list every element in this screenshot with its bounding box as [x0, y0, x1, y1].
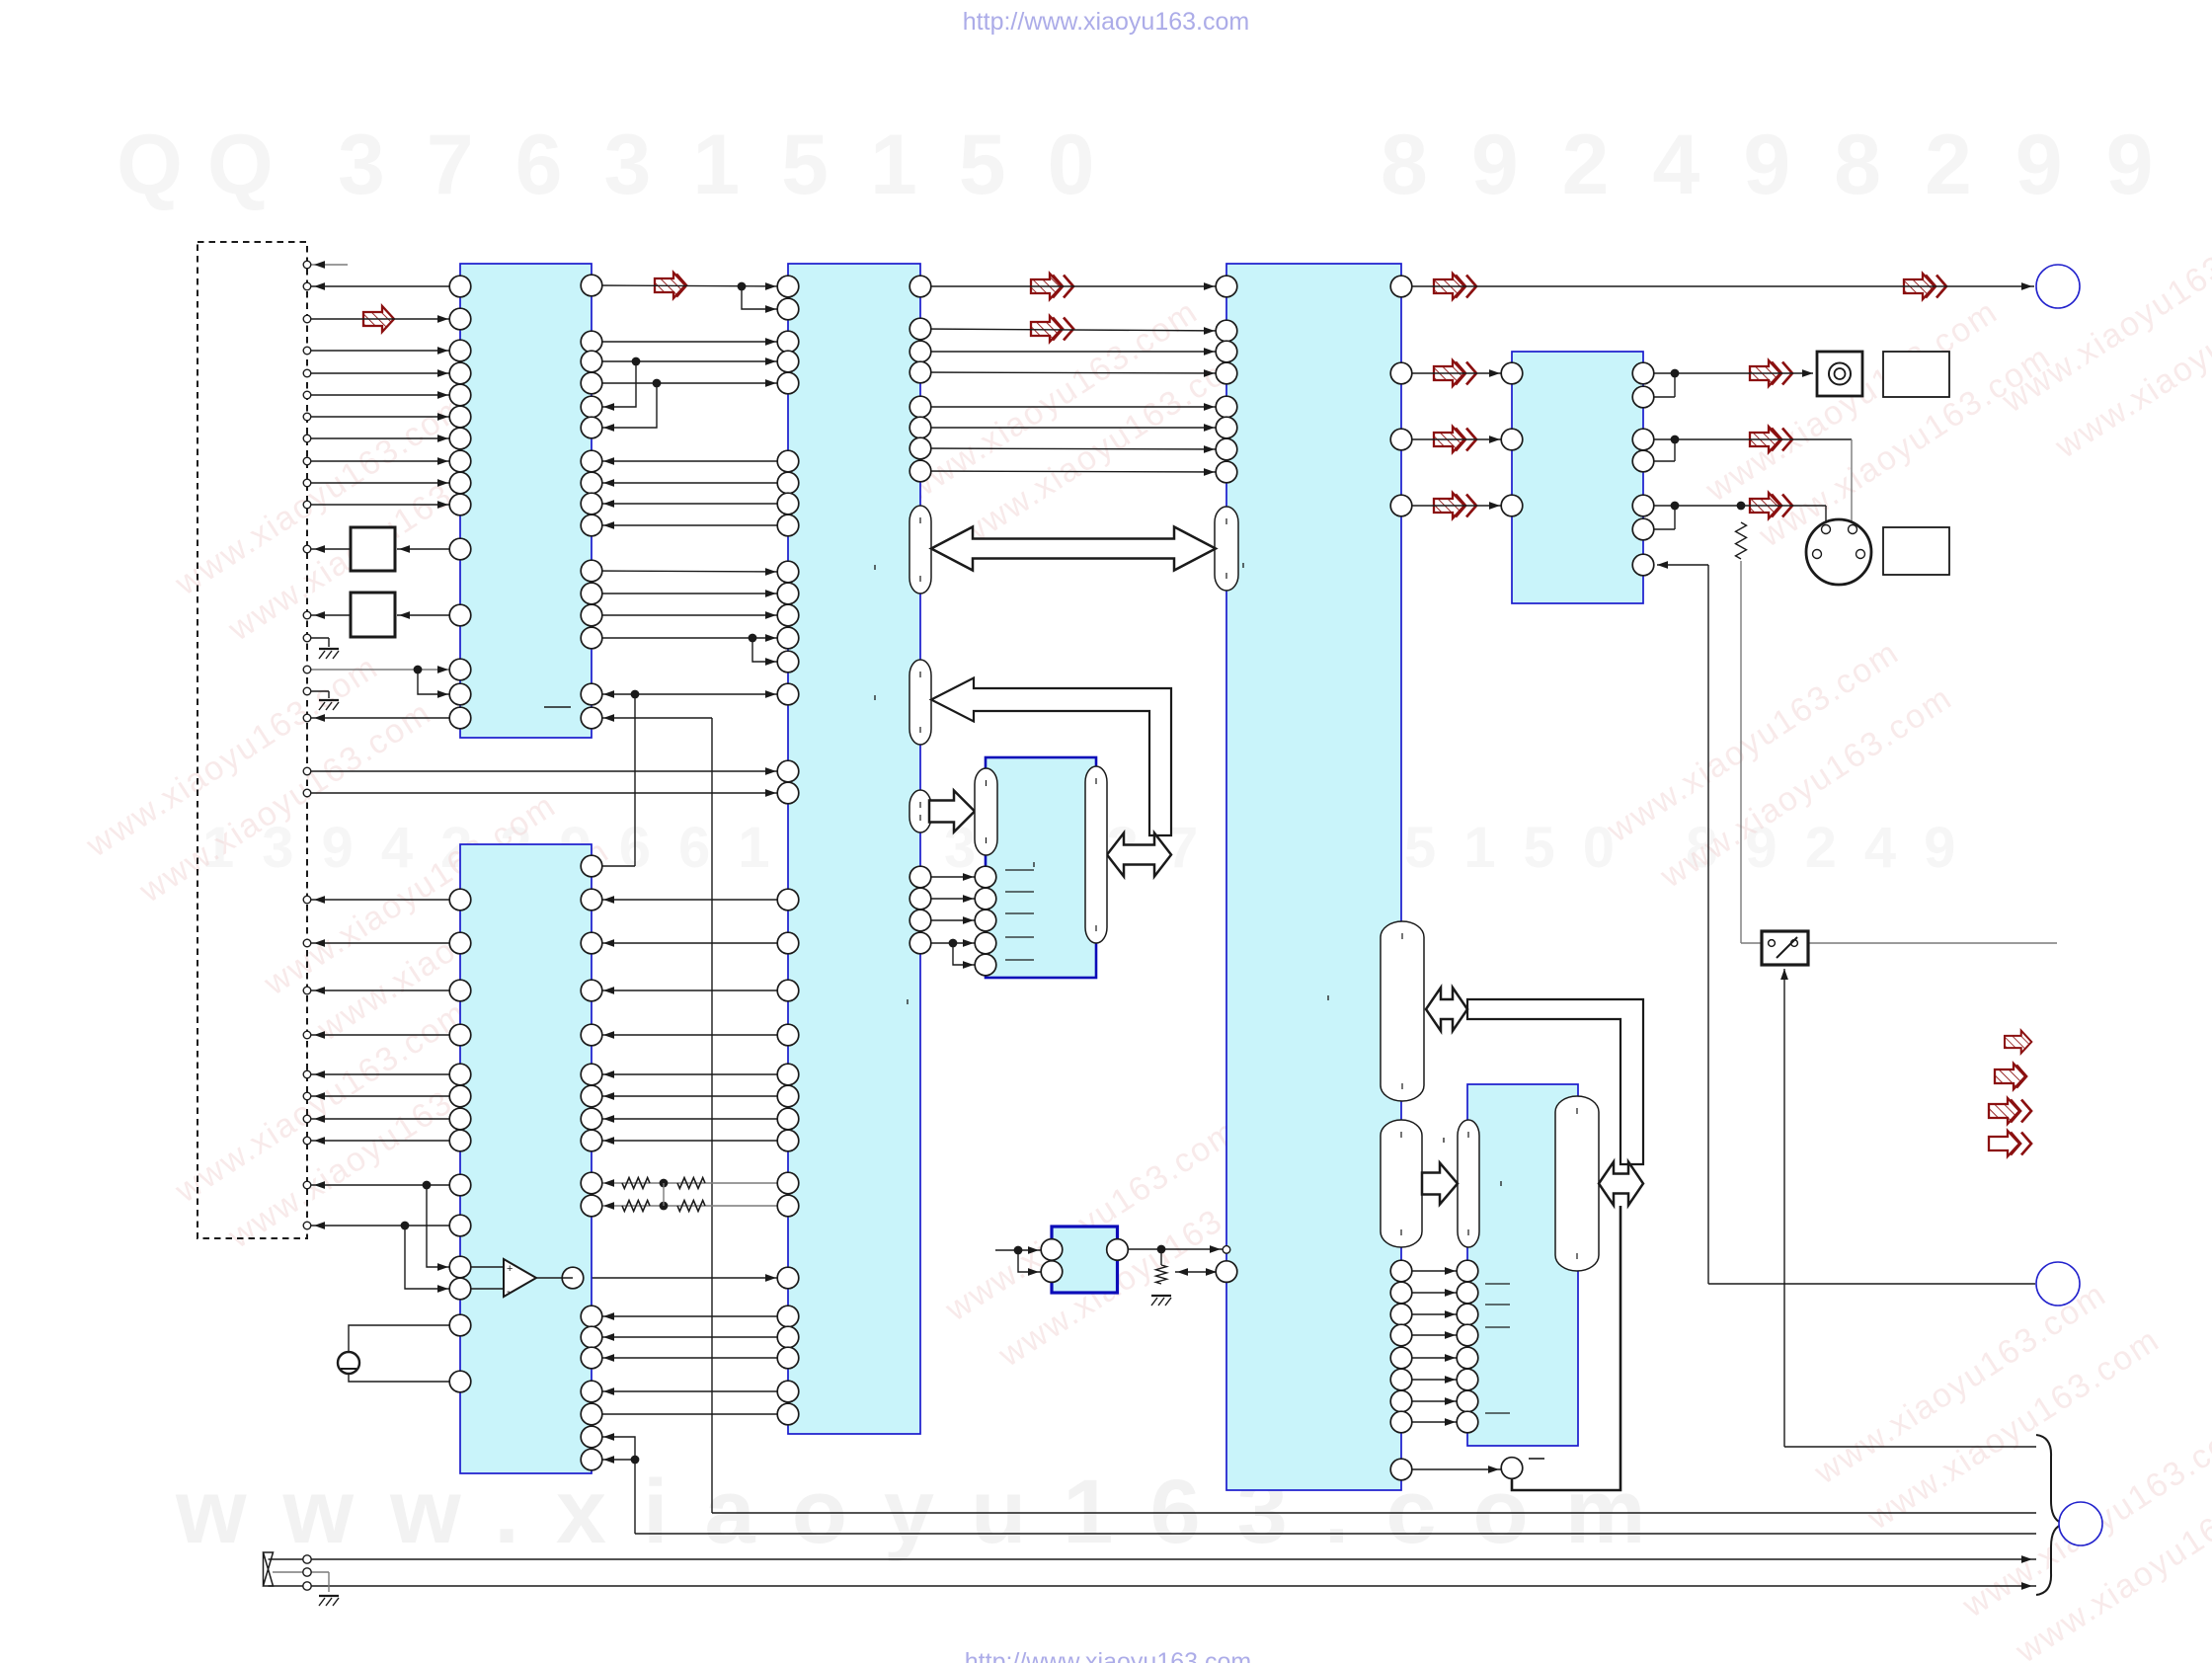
- legend arrow 3 (red): [1989, 1098, 2019, 1124]
- wire IC3-IC2 row911: [592, 899, 788, 901]
- pin IC2 right y955: [581, 932, 602, 954]
- wire switch out: [1808, 942, 2057, 944]
- interface box B1: [351, 527, 395, 571]
- wire row1478: [592, 1459, 635, 1461]
- wire IC3-IC4 row356: [920, 351, 1226, 353]
- pin IC1 right y467: [581, 450, 602, 472]
- label dash IC6 y925: [1005, 912, 1034, 914]
- pin CN y556: [303, 545, 311, 553]
- pin IC2 right y1409: [581, 1381, 602, 1402]
- pin IC2 right y1478: [581, 1449, 602, 1470]
- pin IC8 left y1440: [1457, 1411, 1478, 1433]
- watermark pink 2: [79, 637, 438, 921]
- bus pill IC3-P3: [909, 790, 931, 832]
- wire CN-IC3 row803: [307, 792, 788, 794]
- pin IC3 left y1133: [777, 1108, 799, 1130]
- wire IC3-IC2 row1088: [592, 1073, 788, 1075]
- wire IC3-IC4 row412: [920, 406, 1226, 408]
- signal arrow F1 (red): [1750, 360, 1780, 386]
- pin CN y678: [303, 666, 311, 673]
- wire res link: [663, 1183, 665, 1206]
- pin CN y1133: [303, 1115, 311, 1123]
- pin IC1 right y366: [581, 351, 602, 372]
- wire CN-IC1 row511: [307, 504, 460, 506]
- signal arrow B1 (red): [655, 273, 685, 298]
- wire row1455: [592, 1437, 635, 1534]
- pin IC3 left y489: [777, 472, 799, 494]
- bus pill IC6-P5: [1085, 766, 1107, 943]
- pin CN y268: [303, 261, 311, 269]
- label box L2: [1883, 527, 1949, 575]
- wire IC3-IC6 row955: [920, 942, 986, 944]
- watermark pink 1: [168, 375, 527, 660]
- wire IC5 pin572: [1657, 564, 1708, 566]
- IC7 reset IC: [1052, 1227, 1118, 1293]
- bus pill IC3-P1: [909, 506, 931, 594]
- pin IC2 right y877: [581, 855, 602, 877]
- label box L1: [1883, 352, 1949, 397]
- pin IC3 left y346: [777, 331, 799, 353]
- wire IC1-IC3 row623: [592, 614, 788, 616]
- connector CN dashed box: [197, 242, 307, 1238]
- signal arrow F2 (red): [1750, 427, 1780, 452]
- svg-text:892498299: 892498299: [1381, 118, 2196, 212]
- wire IC5 pair 512: [1643, 505, 1675, 507]
- wire CN-IC2 row1133: [307, 1118, 460, 1120]
- pin IC2 left y1088: [449, 1064, 471, 1085]
- pin IC1 right y388: [581, 372, 602, 394]
- pin CN y727: [303, 714, 311, 722]
- pin IC3 left y579: [777, 561, 799, 583]
- pin CN y646: [303, 634, 311, 642]
- wire IC3-IC2 row1003: [592, 990, 788, 991]
- wire CN-IC2 row1048: [307, 1034, 460, 1036]
- pin IC1 left y290: [449, 276, 471, 297]
- pin IC2 left y1003: [449, 980, 471, 1001]
- pin IC7 in1: [1041, 1239, 1063, 1261]
- pin IC1 right y289: [581, 275, 602, 296]
- label tick 1: [874, 565, 876, 570]
- wire R3-IC4 bidir: [1175, 1271, 1217, 1273]
- IC5 video DAC: [1512, 352, 1643, 603]
- DIN connector J2: [1806, 519, 1871, 585]
- pin IC4 right y1419: [1390, 1390, 1412, 1412]
- pin IC8 left y1375: [1457, 1347, 1478, 1369]
- pin IC4 right y1440: [1390, 1411, 1412, 1433]
- pin CN y1003: [303, 987, 311, 994]
- pin IC4 right y445: [1390, 429, 1412, 450]
- wire res row1221: [592, 1205, 788, 1207]
- pin CN y911: [303, 896, 311, 904]
- pin IC1 left y727: [449, 707, 471, 729]
- bus pill IC3-P2: [909, 660, 931, 745]
- pin opamp out: [562, 1267, 584, 1289]
- IC3 digital signal processor: [788, 264, 920, 1434]
- ground G3: [1151, 1295, 1171, 1297]
- wire CN-IC2 row1241: [307, 1225, 460, 1227]
- label dash IC8 y1300: [1485, 1283, 1510, 1285]
- wire stub P1: [307, 264, 348, 266]
- pin IC1 right y532: [581, 515, 602, 536]
- pin CN y400: [303, 391, 311, 399]
- wire IC1-box2: [397, 614, 449, 616]
- wire battery bottom: [349, 1373, 460, 1382]
- svg-text:376315150: 376315150: [338, 118, 1136, 212]
- pin IC8 bottom: [1501, 1458, 1523, 1479]
- signal arrow C2 (red): [1031, 316, 1062, 342]
- pin IC3 left y955: [777, 932, 799, 954]
- wire CN-IC1 row400: [307, 394, 460, 396]
- bus pill IC4-PB: [1381, 1120, 1422, 1247]
- pin IC1 right y412: [581, 396, 602, 418]
- wire IC3-IC2 row1333: [592, 1315, 788, 1317]
- offpage circle T3: [2059, 1502, 2102, 1545]
- pin IC4 left y433: [1216, 417, 1237, 438]
- watermark pink 5: [899, 281, 1258, 566]
- pin IC3 left y1221: [777, 1195, 799, 1217]
- label dash IC6 y949: [1005, 936, 1034, 938]
- label dash IC8 y1344: [1485, 1326, 1510, 1328]
- pin IC2 left y1241: [449, 1215, 471, 1236]
- pin IC7 in2: [1041, 1261, 1063, 1283]
- bus DBUS3 bottom arrow: [1599, 1162, 1643, 1206]
- pin IC4 right y1331: [1390, 1304, 1412, 1325]
- label tick 8: [907, 999, 908, 1004]
- wire IC4-IC8 row1419: [1401, 1400, 1467, 1402]
- pin IC2 left y1399: [449, 1371, 471, 1392]
- pin IC3 right y356: [909, 341, 931, 362]
- signal arrow C1 (red): [1031, 274, 1062, 299]
- label dash IC8 y1321: [1485, 1304, 1510, 1306]
- pin IC3 right y290: [909, 276, 931, 297]
- wire bottom row1579: [311, 1558, 2036, 1560]
- label dash IC1: [544, 706, 571, 708]
- pin IC2 left y911: [449, 889, 471, 911]
- pin CN y1200: [303, 1181, 311, 1189]
- pin IC5 right y536: [1632, 518, 1654, 540]
- pin IC3 left y703: [777, 683, 799, 705]
- bus arrow to IC6: [929, 791, 975, 832]
- wire IC4-IC8 row1287: [1401, 1270, 1467, 1272]
- wire IC4-IC8 row1440: [1401, 1421, 1467, 1423]
- pin IC3 left y1294: [777, 1267, 799, 1289]
- wire IC1-IC3 row579: [592, 571, 788, 572]
- wire IC2 top right: [592, 865, 635, 867]
- wire box2-CN: [307, 614, 351, 616]
- wire IC3-IC6 row888: [920, 876, 986, 878]
- pin IC4 right y1352: [1390, 1324, 1412, 1346]
- wire bottom row1553: [635, 1533, 2036, 1535]
- pin IC3 left y1375: [777, 1347, 799, 1369]
- wire R2 down to switch: [1740, 561, 1742, 943]
- wire IC1-IC3 row290: [592, 285, 788, 286]
- pin IC7 out: [1107, 1239, 1129, 1261]
- resistor R3: [1156, 1265, 1167, 1284]
- wire IC1-box1: [397, 548, 449, 550]
- label tick 7: [1033, 862, 1035, 867]
- wire net643 top: [592, 693, 788, 695]
- pin CN y1048: [303, 1031, 311, 1039]
- wire IC3-IC4 row290: [920, 285, 1226, 287]
- pin IC3 left y646: [777, 627, 799, 649]
- pin IC3 left y623: [777, 604, 799, 626]
- pin IC8 left y1419: [1457, 1390, 1478, 1412]
- signal arrow A1 (red): [363, 306, 394, 332]
- pin IC3 left y1155: [777, 1130, 799, 1151]
- wire IC1-IC3 row366: [592, 360, 788, 362]
- wire IC2-IC3 row1432: [592, 1413, 788, 1415]
- pin CN y511: [303, 501, 311, 509]
- pin IC3 left y1432: [777, 1403, 799, 1425]
- wire IC3-IC4 row433: [920, 427, 1226, 429]
- wire CN-IC1 row378: [307, 372, 460, 374]
- pin IC3 right y932: [909, 910, 931, 931]
- wire switch bottom: [1783, 969, 1785, 1447]
- pin CN y290: [303, 282, 311, 290]
- wire CN-IC2 row1155: [307, 1140, 460, 1142]
- wire IC3-IC1 row489: [592, 482, 788, 484]
- watermark pink 9: [1600, 622, 1959, 907]
- pin IC1 right y489: [581, 472, 602, 494]
- wire bottom row1606: [311, 1585, 2036, 1587]
- interface box B2: [351, 593, 395, 637]
- pin IC5 left y512: [1501, 495, 1523, 516]
- pin IC3 left y1110: [777, 1085, 799, 1107]
- pin IC3 right y955: [909, 932, 931, 954]
- resistor R2: [1736, 522, 1747, 559]
- wire row1465: [1784, 1446, 2036, 1448]
- wire IC4 out row290: [1401, 285, 2034, 287]
- wire opamp in-: [405, 1226, 460, 1289]
- pin IC3 left y1048: [777, 1024, 799, 1046]
- pin CN y323: [303, 315, 311, 323]
- switch SW1: [1762, 931, 1808, 965]
- watermark pink 7: [1698, 281, 2058, 566]
- pin IC8 left y1331: [1457, 1304, 1478, 1325]
- wire CN-IC1 row290: [307, 285, 460, 287]
- bus pill IC8-PD: [1555, 1096, 1599, 1271]
- svg-text:-: -: [507, 1286, 511, 1298]
- pin IC1 left y556: [449, 538, 471, 560]
- wire box1-CN: [307, 548, 351, 550]
- wire net643 vertical: [634, 694, 636, 866]
- svg-text:www.xiaoyu163.com: www.xiaoyu163.com: [175, 1462, 1683, 1562]
- svg-text:QQ: QQ: [117, 118, 298, 212]
- pin IC1 left y400: [449, 384, 471, 406]
- pin IC1 right y433: [581, 417, 602, 438]
- pin IC5 right y445: [1632, 429, 1654, 450]
- wire bottom row1532: [712, 1512, 2036, 1514]
- pin IC3 left y1003: [777, 980, 799, 1001]
- pin IC3 right y888: [909, 866, 931, 888]
- wire CN-IC1 row422: [307, 416, 460, 418]
- pin IC3 right y910: [909, 888, 931, 910]
- wire IC7 out: [1118, 1248, 1224, 1250]
- label tick 2: [1242, 563, 1244, 568]
- pin IC3 left y670: [777, 651, 799, 673]
- wire IC4-IC8 row1397: [1401, 1379, 1467, 1381]
- pin IC5 right y402: [1632, 386, 1654, 408]
- pin IC2 left y1048: [449, 1024, 471, 1046]
- pin IC4 left y378: [1216, 362, 1237, 384]
- pin CN y1088: [303, 1070, 311, 1078]
- wire CN-IC1 row489: [307, 482, 460, 484]
- pin X1a: [303, 1555, 311, 1563]
- RCA jack J1: [1817, 352, 1862, 396]
- pin CN y378: [303, 369, 311, 377]
- signal arrow E378 (red): [1434, 360, 1464, 386]
- legend arrow 4 (red plain): [1989, 1131, 2019, 1156]
- wire to RCA: [1675, 372, 1813, 374]
- pin CN y1110: [303, 1092, 311, 1100]
- pin CN y700: [303, 687, 311, 695]
- wire CN-IC3 row781: [307, 770, 788, 772]
- pin IC3 left y467: [777, 450, 799, 472]
- wire IC4-IC8 row1331: [1401, 1313, 1467, 1315]
- wire IC3-IC1 row532: [592, 524, 788, 526]
- wire net721 top: [592, 717, 712, 719]
- wire IC4-IC8 row1309: [1401, 1292, 1467, 1294]
- pin IC1 left y378: [449, 362, 471, 384]
- bus pill IC8-PC: [1458, 1120, 1479, 1247]
- wire IC3-IC1 row467: [592, 460, 788, 462]
- pin IC4 right y378: [1390, 362, 1412, 384]
- label tick 4: [1327, 995, 1329, 1000]
- pin IC5 left y445: [1501, 429, 1523, 450]
- bus pill IC4-P1: [1215, 507, 1238, 591]
- signal arrow F3 (red): [1750, 493, 1780, 518]
- connector X1 bowtie: [264, 1552, 274, 1586]
- wire net721 vertical: [711, 718, 713, 1513]
- wire CN-IC2 row1003: [307, 990, 460, 991]
- label tick 5: [1500, 1181, 1502, 1186]
- pin IC2 right y1375: [581, 1347, 602, 1369]
- wire CN row727: [307, 717, 460, 719]
- pin CN y623: [303, 611, 311, 619]
- resistor R7: [677, 1201, 705, 1212]
- pin IC2 right y1088: [581, 1064, 602, 1085]
- pin IC2 right y911: [581, 889, 602, 911]
- pin IC5 left y378: [1501, 362, 1523, 384]
- pin IC1 left y703: [449, 683, 471, 705]
- pin IC4 right y1287: [1390, 1260, 1412, 1282]
- wire IC4-IC8 row1375: [1401, 1357, 1467, 1359]
- svg-text:+: +: [507, 1263, 513, 1275]
- battery BT1: [338, 1352, 359, 1374]
- op-amp U2a: [471, 1266, 504, 1268]
- bus DBUS2 bottom arrow: [1107, 833, 1171, 877]
- wire IC3-IC2 row1155: [592, 1140, 788, 1142]
- pin IC1 left y678: [449, 659, 471, 680]
- pin CN y489: [303, 479, 311, 487]
- wire opamp out: [573, 1277, 788, 1279]
- pin IC3 left y781: [777, 760, 799, 782]
- pin IC2 left y1283: [449, 1256, 471, 1278]
- label tick 6: [1443, 1138, 1445, 1143]
- wire net1730: [1707, 565, 1709, 1284]
- pin IC4 left y356: [1216, 341, 1237, 362]
- wire branch row313: [742, 286, 788, 309]
- pin IC2 right y1155: [581, 1130, 602, 1151]
- offpage circle T2: [2036, 1262, 2080, 1306]
- label dash IC6 y903: [1005, 891, 1034, 893]
- wire IC5 pair 378: [1643, 372, 1675, 374]
- svg-text:http://www.xiaoyu163.com: http://www.xiaoyu163.com: [963, 8, 1249, 36]
- bus DBUS1 (fat double arrow): [931, 527, 1216, 571]
- pin CN y803: [303, 789, 311, 797]
- wire opamp in+: [427, 1185, 460, 1267]
- IC6 SDRAM: [986, 757, 1096, 978]
- wire to DIN left: [1675, 505, 1826, 507]
- brace right: [2036, 1435, 2064, 1595]
- wire IC3-IC4 row335: [920, 329, 1226, 331]
- pin IC1 right y646: [581, 627, 602, 649]
- ground G1: [319, 648, 339, 650]
- pin IC3 left y532: [777, 515, 799, 536]
- wire branch row412: [592, 361, 636, 407]
- pin IC1 right y601: [581, 583, 602, 604]
- pin IC4 left y290: [1216, 276, 1237, 297]
- pin IC2 left y1342: [449, 1314, 471, 1336]
- pin IC2 left y1110: [449, 1085, 471, 1107]
- pin IC3 left y1333: [777, 1306, 799, 1327]
- wire IC3-IC6 row932: [920, 919, 986, 921]
- pin IC4 right y1309: [1390, 1282, 1412, 1304]
- IC8 flash memory: [1467, 1084, 1578, 1446]
- watermark pink 6: [938, 1101, 1298, 1386]
- pin IC3 left y290: [777, 276, 799, 297]
- wire IC4-IC8 row1352: [1401, 1334, 1467, 1336]
- pin IC2 left y955: [449, 932, 471, 954]
- pin IC8 left y1309: [1457, 1282, 1478, 1304]
- pin IC1 right y346: [581, 331, 602, 353]
- wire IC3-IC2 row1048: [592, 1034, 788, 1036]
- bus pill IC4-PA: [1381, 921, 1424, 1101]
- pin IC3 left y510: [777, 493, 799, 515]
- label dash IC6 y972: [1005, 959, 1034, 961]
- pin IC5 right y378: [1632, 362, 1654, 384]
- svg-text:http://www.xiaoyu163.com: http://www.xiaoyu163.com: [965, 1648, 1251, 1663]
- wire CN gnd2: [307, 690, 329, 692]
- pin IC2 right y1432: [581, 1403, 602, 1425]
- pin IC2 left y1305: [449, 1278, 471, 1300]
- pin X1c: [303, 1582, 311, 1590]
- pin IC3 left y388: [777, 372, 799, 394]
- wire bowtie mid: [311, 1571, 329, 1573]
- wire CN-IC1 row323: [307, 318, 460, 320]
- pin IC2 right y1003: [581, 980, 602, 1001]
- wire IC4-IC5 row512: [1401, 505, 1512, 507]
- pin CN y955: [303, 939, 311, 947]
- pin IC3 right y412: [909, 396, 931, 418]
- pin IC4 left y455: [1216, 438, 1237, 460]
- pin IC4 right y1488: [1390, 1459, 1412, 1480]
- pin IC1 left y623: [449, 604, 471, 626]
- label dash IC8 y1431: [1485, 1412, 1510, 1414]
- pin IC1 left y444: [449, 428, 471, 449]
- pin IC1 right y510: [581, 493, 602, 515]
- pin CN y1241: [303, 1222, 311, 1229]
- pin IC2 right y1133: [581, 1108, 602, 1130]
- wire IC4-IC5 row378: [1401, 372, 1512, 374]
- pin IC4 right y290: [1390, 276, 1412, 297]
- pin CN y355: [303, 347, 311, 355]
- resistor R6: [622, 1201, 650, 1212]
- pin IC4 left small y1265: [1223, 1246, 1230, 1254]
- pin IC8 left y1397: [1457, 1369, 1478, 1390]
- legend arrow 2 (red): [1995, 1064, 2025, 1089]
- signal arrow E512 (red): [1434, 493, 1464, 518]
